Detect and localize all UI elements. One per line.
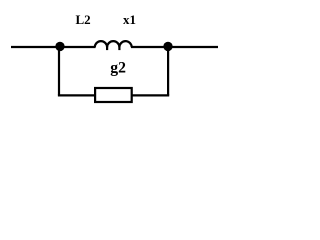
svg-text:g2: g2 xyxy=(110,59,126,76)
node (right junction) xyxy=(163,42,172,51)
svg-text:x1: x1 xyxy=(123,12,136,27)
inductor L2 xyxy=(95,41,132,50)
wire (right vertical drop) xyxy=(167,47,169,96)
svg-text:L2: L2 xyxy=(76,12,91,27)
wire (bottom right horizontal) xyxy=(132,94,169,96)
wire (left vertical drop) xyxy=(58,47,60,96)
node (left junction) xyxy=(55,42,64,51)
wire (bottom left horizontal) xyxy=(58,94,95,96)
resistor g2 (box) xyxy=(95,88,132,102)
wire (top rail, right segment) xyxy=(131,46,218,48)
wire (top rail, left segment) xyxy=(11,46,96,48)
